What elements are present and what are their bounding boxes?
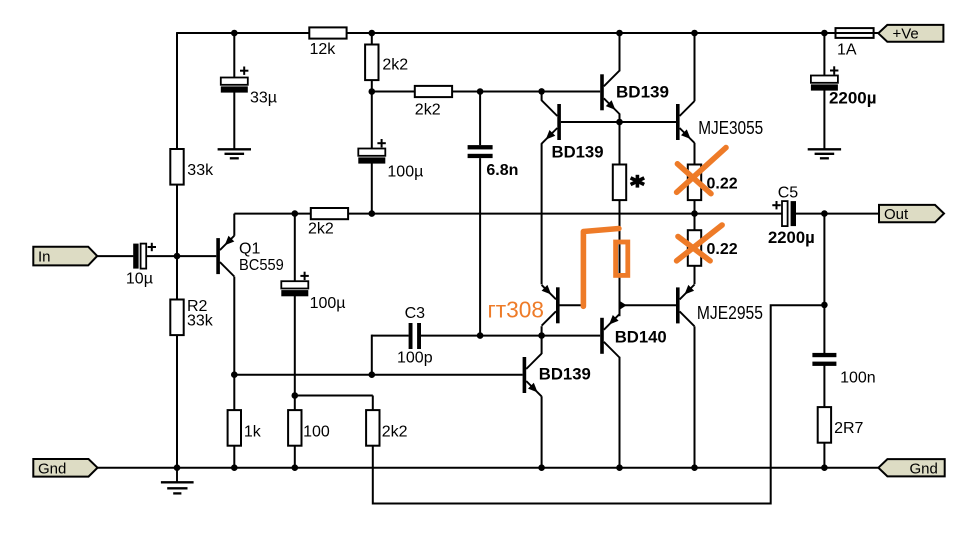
svg-text:100: 100 [303,424,330,441]
svg-text:Gnd: Gnd [38,460,66,477]
svg-text:1k: 1k [244,424,262,441]
svg-text:2k2: 2k2 [382,57,408,74]
annotation X over lower 0.22 [677,225,723,261]
wire node C to R* [619,122,621,165]
junction ground / left rail [174,464,181,471]
wire lower 0.22 to MJE2955 emitter [694,266,696,285]
svg-text:2R7: 2R7 [834,420,863,437]
junction output rail / 0.22 [691,210,698,217]
transistor driver (PNP, annotated) [556,287,560,323]
svg-text:100p: 100p [397,349,433,366]
wire 2200u to ground symbol [823,89,825,149]
capacitor 10u (input) [133,244,138,269]
junction node B / 6.8n [477,88,484,95]
wire MJE3055 emitter to 0.22 [694,143,696,165]
wire 10u to node A [146,255,177,257]
wire 1k to ground rail [233,446,235,468]
svg-text:33k: 33k [187,162,214,179]
transistor BD139 (2nd) [557,104,561,140]
resistor 2k2 (node B) [415,86,452,97]
wire R* down to driver node [619,200,621,316]
wire output rail (y=213.6) [234,213,310,215]
wire top rail to MJE3055 collector [694,33,696,101]
resistor R2 33k [170,300,183,336]
junction node A (input) [174,253,181,260]
junction ground / BD140 collector [616,464,623,471]
wire node D to 1k [233,375,235,411]
capacitor C5 2200u [782,201,788,226]
svg-text:BD139: BD139 [616,83,669,102]
svg-text:100n: 100n [840,369,876,386]
wire left rail upper [176,32,178,149]
wire ground rail (y=467.7) [98,467,880,469]
wire C3 node to BD140 base (y=335.6) [421,335,600,337]
resistor R* [613,165,626,201]
annotation bracket [583,229,619,307]
wire top rail to BD139 collector [619,33,621,71]
wire In connector to 10u [97,255,133,257]
junction output rail / node B cap [369,210,376,217]
wire top rail to 2200u [823,33,825,76]
wire 0.22 to output rail [694,200,696,214]
svg-text:BD140: BD140 [615,328,667,347]
capacitor 33u [221,78,248,85]
svg-text:In: In [38,248,51,265]
junction ground / MJE2955 collector [691,464,698,471]
svg-text:2200µ: 2200µ [768,228,815,247]
capacitor C3 100p [409,323,413,349]
svg-text:2k2: 2k2 [382,424,408,441]
wire BD139 emitter to ground rail [541,396,543,468]
junction node C (BD139 emitter/base) [616,119,623,126]
svg-text:C5: C5 [778,184,799,201]
svg-text:BD139: BD139 [552,143,604,162]
svg-text:33µ: 33µ [250,90,277,107]
wire node E to 100R [294,396,296,411]
wire C3 left branch [372,335,409,337]
ground (33u) [218,148,251,150]
connector Out [879,205,944,222]
wire driver collector to C3 node [541,326,543,354]
svg-text:MJE2955: MJE2955 [697,302,763,323]
svg-text:+Ve: +Ve [893,26,919,43]
transistor BD140 [600,318,604,354]
wire 2R7 to ground rail [823,442,825,468]
junction node D / C3 branch [369,371,376,378]
wire to MJE2955 base (y=305.3) [620,304,677,306]
wire node E to 2k2 feedback resistor [372,396,374,411]
connector In [33,247,97,266]
transistor MJE3055 [676,104,680,140]
annotation X over upper 0.22 [677,148,726,193]
resistor 2k2 (output rail) [311,208,348,219]
svg-text:Out: Out [884,206,909,223]
junction Zobel / feedback [821,302,828,309]
arrow on MJE2955 base wire [620,301,626,309]
capacitor 2200u (supply) [811,76,838,83]
svg-text:2200µ: 2200µ [829,89,877,108]
wire Zobel node to 100n [823,305,825,354]
resistor 2k2 (vertical) [365,45,378,81]
svg-text:BD139: BD139 [539,365,591,384]
wire node D to BD139 base (y=374.7) [234,374,522,376]
wire node E (y=395.5) [295,395,373,397]
wire +Ve rail (top) [177,32,836,34]
wire feedback loop [373,305,825,503]
svg-text:гт308: гт308 [488,297,545,323]
wire node A to Q1 base [177,255,216,257]
wire 100n to 2R7 [823,365,825,407]
transistor BD139 (top) [600,74,604,110]
junction C3 node / driver collector [538,332,545,339]
wire MJE2955 collector to ground rail [694,326,696,467]
wire 100u cap down to node E [294,295,296,395]
junction node B / BD139 collector [538,88,545,95]
wire Q1 emitter to output rail [233,214,235,236]
wire left rail mid [176,185,178,300]
svg-text:MJE3055: MJE3055 [698,117,763,138]
junction ground / 1k [231,464,238,471]
wire BD139 collector to node B [541,91,543,100]
connector Gnd (right) [878,459,944,476]
wire 100u to output rail [371,162,373,214]
wire BD139 base to MJE3055 base (y=122) [561,121,676,123]
connector Gnd (left) [33,459,97,477]
wire 6.8n down to C3 node [479,158,481,336]
svg-text:1A: 1A [837,42,857,59]
wire driver base stub (y=305.3) [559,304,581,306]
resistor 12k [309,27,346,38]
capacitor 6.8n [468,145,493,149]
junction node B / 100u [369,88,376,95]
wire BD139 emitter to node C [619,114,621,123]
wire left rail lower [176,335,178,468]
wire node B to 6.8n [479,92,481,146]
svg-text:10µ: 10µ [126,271,153,288]
svg-text:100µ: 100µ [387,164,423,181]
svg-text:2k2: 2k2 [308,221,334,238]
transistor Q1 BC559 [216,238,220,274]
wire 33u branch [233,33,235,78]
svg-text:C3: C3 [405,305,426,322]
junction ground / 100R [292,464,299,471]
junction top rail / 2k2 [369,30,376,37]
junction ground / BD139 emitter [538,464,545,471]
resistor 2k2 (feedback) [366,410,379,446]
wire 33u to ground [233,91,235,149]
wire node B rail (y=91.5) [372,91,415,93]
ground (main) [176,468,178,482]
svg-text:0.22: 0.22 [707,176,738,193]
junction top rail / BD139 collector [616,30,623,37]
resistor 1k [228,410,241,446]
junction node D / Q1 collector [231,371,238,378]
ground (supply cap) [808,148,841,150]
wire fuse to +Ve connector [874,32,880,34]
resistor 0.22 (upper) [688,165,701,201]
svg-text:Gnd: Gnd [910,460,938,477]
svg-text:12k: 12k [310,41,337,58]
wire top rail to 2k2 [371,33,373,45]
wire node B to 100u cap [371,92,373,149]
resistor 33k (upper) [170,149,183,185]
capacitor 100u (Q1) [281,281,308,288]
capacitor 100n [812,353,836,357]
wire output rail to lower 0.22 [694,214,696,231]
wire BD139 emitter down to driver [541,143,543,284]
wire 100R to ground rail [294,446,296,468]
svg-text:0.22: 0.22 [707,241,738,258]
junction node E [292,392,299,399]
connector +Ve [878,25,943,42]
resistor 0.22 (lower) [688,230,701,266]
svg-text:33k: 33k [187,312,214,329]
junction top rail / 33u [231,30,238,37]
wire BD140 collector to ground rail [619,357,621,468]
transistor MJE2955 [676,287,680,323]
junction output rail / 100u [292,210,299,217]
annotation rectangle [616,242,628,275]
junction C3 node / 6.8n [477,332,484,339]
wire output rail to 100u cap [294,214,296,282]
transistor BD139 (bottom) [523,357,527,393]
junction output rail / C5 out [821,210,828,217]
resistor 100 [288,410,301,446]
junction top rail / MJE3055 collector [691,30,698,37]
resistor 2R7 [818,407,831,443]
junction ground / 2R7 [821,464,828,471]
svg-text:6.8n: 6.8n [486,162,518,179]
junction top rail / supply cap [821,30,828,37]
svg-text:Q1: Q1 [239,241,260,258]
svg-text:BC559: BC559 [239,257,284,274]
wire output to Zobel node [823,214,825,305]
wire Q1 collector down [233,277,235,375]
svg-text:100µ: 100µ [310,295,346,312]
fuse 1A [836,28,874,38]
capacitor 100u (node B) [358,149,385,156]
wire 2k2 to node B [371,80,373,91]
svg-text:2k2: 2k2 [415,102,441,119]
